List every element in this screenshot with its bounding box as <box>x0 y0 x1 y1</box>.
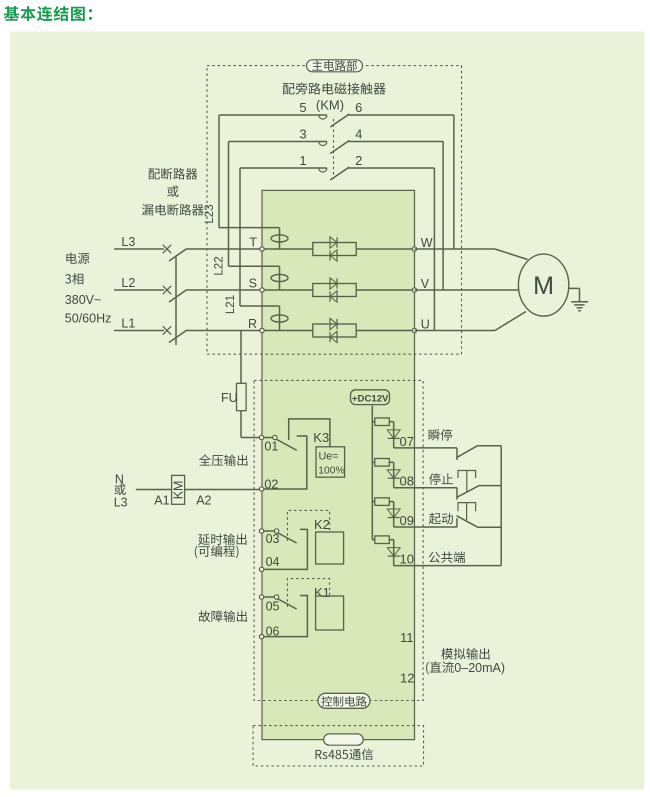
svg-text:09: 09 <box>400 513 414 528</box>
svg-text:K1: K1 <box>314 585 330 600</box>
svg-text:4: 4 <box>355 127 362 142</box>
svg-text:10: 10 <box>400 552 414 567</box>
svg-text:(KM): (KM) <box>316 97 344 112</box>
svg-text:FU: FU <box>221 391 238 405</box>
svg-text:5: 5 <box>299 100 306 115</box>
svg-text:L1: L1 <box>121 316 135 330</box>
svg-text:R: R <box>248 317 257 331</box>
svg-text:50/60Hz: 50/60Hz <box>65 311 112 325</box>
svg-text:Ue=: Ue= <box>319 451 339 463</box>
svg-text:W: W <box>421 236 433 250</box>
svg-text:06: 06 <box>266 624 280 638</box>
svg-text:03: 03 <box>266 532 280 546</box>
svg-text:3: 3 <box>299 127 306 142</box>
svg-text:S: S <box>249 277 257 291</box>
svg-text:L23: L23 <box>204 204 216 223</box>
svg-text:+DC12V: +DC12V <box>352 394 389 405</box>
svg-text:0–20mA): 0–20mA) <box>454 661 505 675</box>
svg-text:T: T <box>249 236 257 250</box>
svg-text:12: 12 <box>400 670 414 685</box>
svg-text:M: M <box>533 272 554 300</box>
svg-text:1: 1 <box>299 153 306 168</box>
svg-text:A1: A1 <box>154 493 169 507</box>
svg-text:08: 08 <box>400 474 414 489</box>
svg-text:380V~: 380V~ <box>65 293 102 307</box>
svg-text:11: 11 <box>400 630 414 645</box>
svg-text:V: V <box>421 277 430 291</box>
svg-text:2: 2 <box>355 153 362 168</box>
svg-text:L3: L3 <box>121 235 135 249</box>
svg-text:6: 6 <box>355 100 362 115</box>
svg-text:100%: 100% <box>318 466 344 477</box>
svg-text:U: U <box>421 317 430 331</box>
svg-text:02: 02 <box>264 477 278 491</box>
svg-text:07: 07 <box>400 434 414 449</box>
svg-text:05: 05 <box>266 600 280 614</box>
svg-text:L21: L21 <box>225 295 237 314</box>
svg-text:L2: L2 <box>121 276 135 290</box>
svg-text:K2: K2 <box>314 517 330 532</box>
svg-text:K3: K3 <box>313 430 329 445</box>
svg-text:04: 04 <box>266 555 280 569</box>
svg-text:L22: L22 <box>214 256 226 275</box>
svg-text:01: 01 <box>264 439 278 453</box>
svg-text:A2: A2 <box>196 493 211 507</box>
svg-text:L3: L3 <box>114 496 128 510</box>
svg-text:KM: KM <box>172 481 186 500</box>
